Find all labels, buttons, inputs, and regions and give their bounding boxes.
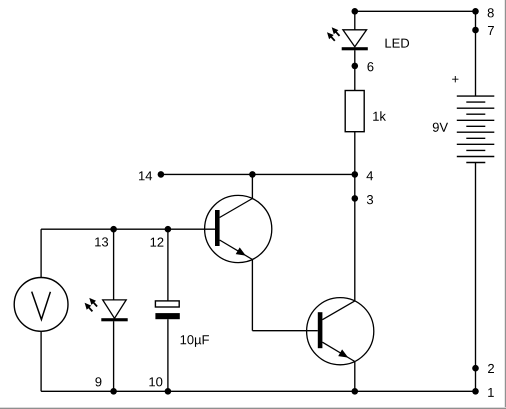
wire Q1 emitter drop <box>251 260 253 331</box>
label 6 <box>367 62 373 71</box>
node 3 <box>352 195 359 202</box>
label 13 <box>95 237 108 246</box>
node 9 <box>110 388 117 395</box>
label 2 <box>488 364 494 373</box>
label 8 <box>488 8 494 17</box>
label 1 <box>488 388 494 397</box>
node 12 <box>165 226 172 233</box>
node 1 <box>472 388 479 395</box>
transistor Q1 <box>205 195 272 262</box>
label 14 <box>139 171 152 180</box>
wire node 14 to node 4 <box>161 173 355 175</box>
label 12 <box>151 238 164 247</box>
wire top rail <box>355 10 476 12</box>
wire Q1 emitter to Q2 base <box>252 330 317 332</box>
node 8 <box>472 8 479 15</box>
wire resistor to Q2 collector <box>354 132 356 301</box>
capacitor C1 10uF <box>155 301 179 319</box>
resistor R1 1k <box>345 91 364 132</box>
node 10 <box>165 388 172 395</box>
node 7 <box>472 27 479 34</box>
node 6 <box>352 63 359 70</box>
voltmeter M1 <box>14 278 68 332</box>
node 14 <box>158 171 165 178</box>
wire voltmeter bottom drop <box>40 332 42 392</box>
wire capacitor to node 10 <box>167 319 169 391</box>
node 13 <box>110 226 117 233</box>
label 9V <box>433 123 448 132</box>
wire top rail to LED anode <box>354 11 356 30</box>
wire voltmeter to Q1 base <box>41 228 215 230</box>
label LED <box>385 39 409 48</box>
wire LED cathode to resistor <box>354 50 356 90</box>
canvas frame bottom edge <box>0 407 506 409</box>
photodiode/LED D2 <box>85 298 128 321</box>
battery B1 9V <box>457 96 495 162</box>
label 3 <box>367 195 373 204</box>
wire Q2 emitter to bottom rail <box>354 362 356 392</box>
wire node 12 to capacitor <box>167 229 169 301</box>
label 7 <box>488 26 494 35</box>
wire photodiode to node 9 <box>113 321 115 391</box>
node 2 <box>472 365 479 372</box>
label 10 <box>149 377 162 386</box>
label 9 <box>95 377 101 386</box>
label 1k <box>373 111 386 120</box>
node 4 <box>352 171 359 178</box>
wire right rail upper (node 8 to battery +) <box>475 11 477 96</box>
LED D1 <box>327 27 368 50</box>
label 10uF <box>181 335 209 347</box>
transistor Q2 <box>307 298 374 365</box>
junction top-left of rail <box>352 8 359 15</box>
wire Q1 collector riser <box>251 174 253 198</box>
wire right rail lower (battery - to node 1) <box>475 163 477 392</box>
wire node 13 to photodiode <box>113 229 115 300</box>
label + <box>452 76 458 82</box>
junction Q2 emitter <box>352 388 359 395</box>
label 4 <box>366 171 373 180</box>
junction Q1 collector <box>249 171 256 178</box>
wire bottom rail <box>41 390 475 392</box>
wire voltmeter top riser <box>40 229 42 277</box>
